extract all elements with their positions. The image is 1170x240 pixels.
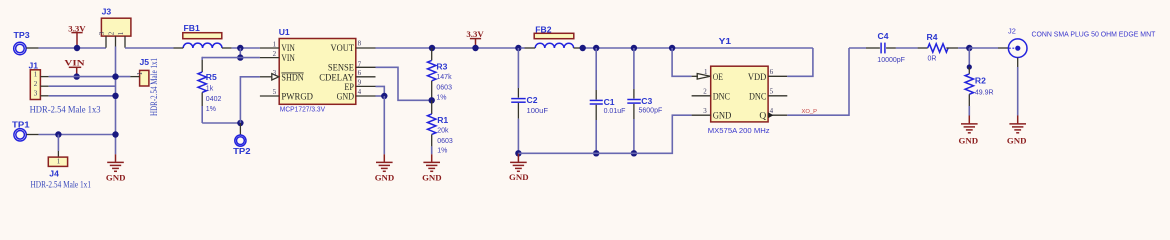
- pin 3 of J1: [40, 95, 48, 97]
- svg-text:0603: 0603: [437, 138, 453, 145]
- svg-text:7: 7: [358, 60, 362, 68]
- test point TP1: [12, 119, 30, 141]
- wire VOUT rail: [376, 47, 519, 49]
- svg-text:J3: J3: [102, 7, 112, 17]
- svg-text:2: 2: [703, 87, 707, 95]
- junction OE drop: [669, 45, 675, 51]
- svg-text:GND: GND: [337, 93, 355, 103]
- wire TP1 to GND line: [39, 134, 116, 136]
- svg-text:3: 3: [98, 31, 106, 35]
- connector J3: [98, 7, 131, 36]
- junction R2 pin: [967, 64, 972, 69]
- pin 1 of J4: [57, 151, 59, 157]
- junction C1 top: [593, 45, 599, 51]
- svg-text:9: 9: [358, 79, 362, 87]
- svg-text:OE: OE: [713, 73, 723, 83]
- pin 5 of Y1: [768, 95, 787, 97]
- svg-text:0.01uF: 0.01uF: [604, 108, 626, 115]
- svg-text:PWRGD: PWRGD: [281, 93, 313, 103]
- oscillator Y1 MX575A: [708, 36, 770, 135]
- svg-text:49.9R: 49.9R: [975, 90, 994, 97]
- svg-text:DNC: DNC: [713, 92, 730, 102]
- junction C2 bottom: [515, 150, 521, 156]
- svg-text:1: 1: [704, 68, 708, 76]
- resistor R5: [198, 57, 221, 123]
- svg-text:C1: C1: [604, 97, 615, 107]
- junction J1 pin3 wire at x115.5: [112, 93, 118, 99]
- svg-text:R3: R3: [436, 61, 447, 71]
- pin 7 of U1: [356, 66, 376, 68]
- svg-text:1: 1: [273, 41, 277, 49]
- svg-text:C2: C2: [527, 95, 538, 105]
- pin 2 of U1: [260, 57, 279, 59]
- svg-text:2: 2: [107, 31, 115, 35]
- svg-text:GND: GND: [375, 172, 395, 182]
- svg-text:VOUT: VOUT: [331, 44, 355, 54]
- wire J1 pin 1 to J5: [49, 76, 131, 78]
- pin 2 of Y1: [692, 95, 711, 97]
- svg-text:HDR-2.54 Male 1x1: HDR-2.54 Male 1x1: [31, 179, 92, 189]
- junction R3 top: [429, 45, 435, 51]
- junction at 3.3V port: [74, 45, 80, 51]
- svg-text:GND: GND: [1007, 135, 1027, 145]
- wire FB1 to U1 pin 1: [232, 47, 260, 49]
- connector J1: [29, 61, 102, 115]
- svg-text:GND: GND: [509, 172, 529, 182]
- ground symbol under C2: [509, 153, 529, 182]
- test point TP3: [14, 30, 30, 54]
- pin 4 of U1: [356, 95, 376, 97]
- svg-text:1%: 1%: [437, 148, 447, 155]
- pin 5 of U1: [260, 95, 279, 97]
- connector J2 SMA: [1008, 27, 1156, 58]
- connector J5: [136, 57, 159, 116]
- wire J2 to ground: [1017, 58, 1019, 67]
- svg-text:Y1: Y1: [719, 36, 732, 46]
- svg-text:5: 5: [770, 87, 774, 95]
- svg-text:3.3V: 3.3V: [68, 23, 86, 33]
- ground symbol under R1: [422, 154, 442, 182]
- wire J4 drop: [57, 135, 59, 152]
- junction at pin2 row: [237, 54, 243, 60]
- svg-text:1: 1: [136, 71, 144, 75]
- svg-text:GND: GND: [713, 112, 732, 122]
- pin 3 of Y1: [692, 114, 711, 116]
- svg-text:MX575A 200 MHz: MX575A 200 MHz: [708, 126, 770, 135]
- svg-text:XO_P: XO_P: [802, 109, 818, 115]
- pin 1 of U1: [260, 47, 279, 49]
- resistor R1: [428, 100, 453, 154]
- svg-text:10000pF: 10000pF: [877, 57, 905, 64]
- wire J3 pin 2 down to GND: [115, 47, 117, 155]
- svg-text:J5: J5: [140, 57, 150, 67]
- svg-text:0603: 0603: [436, 84, 452, 91]
- svg-text:2: 2: [34, 80, 38, 88]
- pin 1 of J1: [40, 76, 48, 78]
- svg-text:1k: 1k: [206, 86, 214, 93]
- wire Q output XO_P: [787, 48, 849, 115]
- svg-text:MCP1727/3.3V: MCP1727/3.3V: [280, 105, 325, 114]
- resistor R3: [428, 48, 453, 102]
- svg-text:147k: 147k: [436, 74, 452, 81]
- junction SENSE divider: [429, 97, 435, 103]
- wire SENSE to divider: [376, 67, 429, 100]
- wire OE drop: [672, 48, 692, 76]
- pin 4 of Y1 with arrow: [768, 114, 787, 116]
- resistor R4: [918, 32, 970, 63]
- regulator U1 MCP1727: [279, 27, 356, 114]
- wire R5 top to U1 pin 2: [202, 57, 260, 59]
- wire rail drop to VIN pin2 row: [239, 48, 241, 58]
- junction TP1 wire at x115.5: [112, 131, 118, 137]
- svg-text:VDD: VDD: [748, 73, 767, 83]
- junction EP GND: [381, 93, 387, 99]
- junction J1 pin1 wire at x115.5: [112, 73, 118, 79]
- svg-text:3: 3: [703, 107, 707, 115]
- svg-text:FB1: FB1: [184, 23, 200, 33]
- pin of TP3: [26, 47, 38, 49]
- wire to J2: [969, 47, 998, 49]
- svg-text:0R: 0R: [928, 56, 937, 63]
- svg-text:J4: J4: [49, 168, 59, 178]
- svg-text:TP2: TP2: [233, 146, 251, 156]
- wire J1 pin 3: [49, 95, 116, 97]
- wire EP to GND junction: [376, 86, 385, 95]
- svg-text:4: 4: [358, 88, 362, 96]
- svg-text:R2: R2: [975, 76, 986, 86]
- svg-text:6: 6: [358, 69, 362, 77]
- svg-text:4: 4: [770, 107, 774, 115]
- pin 6 of U1: [356, 76, 376, 78]
- test point TP2: [233, 135, 251, 156]
- capacitor C1: [590, 48, 626, 153]
- power port 3.3V: [68, 23, 86, 47]
- svg-text:C3: C3: [641, 96, 652, 106]
- pin of TP1: [26, 134, 38, 136]
- svg-text:CONN SMA PLUG 50 OHM EDGE MNT: CONN SMA PLUG 50 OHM EDGE MNT: [1032, 30, 1156, 39]
- connector J4: [31, 157, 92, 189]
- pin 2 of J1: [40, 85, 48, 87]
- power port 3.3V mid: [466, 29, 484, 47]
- pin 3 of J3: [105, 36, 107, 48]
- svg-text:HDR-2.54 Male 1x1: HDR-2.54 Male 1x1: [149, 58, 159, 116]
- svg-text:1: 1: [57, 158, 61, 166]
- svg-text:3.3V: 3.3V: [466, 29, 484, 39]
- pin 2 of J3: [115, 36, 117, 46]
- svg-text:20k: 20k: [437, 128, 449, 135]
- capacitor C4: [849, 31, 918, 64]
- capacitor C3: [627, 48, 662, 153]
- svg-text:1: 1: [117, 31, 125, 35]
- wire J1 pin 2: [49, 85, 116, 87]
- svg-text:1: 1: [34, 70, 38, 78]
- wire FB2 left lead: [521, 47, 525, 49]
- svg-text:C4: C4: [878, 31, 889, 41]
- pin 9 of U1: [356, 85, 376, 87]
- wire J3 pin1 to FB1: [125, 47, 174, 49]
- resistor R2: [965, 67, 993, 116]
- ferrite bead FB1: [174, 23, 232, 48]
- pin 3 of U1 with input arrow: [260, 76, 272, 78]
- svg-text:5: 5: [273, 88, 277, 96]
- svg-text:6: 6: [770, 68, 774, 76]
- junction VIN at J1 pin 1 row: [74, 73, 80, 79]
- wire pin 4 GND: [376, 95, 385, 97]
- pin of TP2: [239, 123, 241, 135]
- power port VIN: [64, 58, 85, 76]
- pin 1 of J5: [130, 76, 139, 78]
- junction after FB2: [580, 45, 586, 51]
- svg-text:1%: 1%: [436, 95, 446, 102]
- wire VDD to rail: [787, 48, 813, 76]
- pin 1 of J3: [124, 36, 126, 48]
- svg-text:8: 8: [358, 40, 362, 48]
- svg-text:U1: U1: [279, 27, 290, 37]
- svg-text:DNC: DNC: [749, 92, 766, 102]
- svg-text:GND: GND: [106, 172, 126, 182]
- svg-text:SENSE: SENSE: [328, 64, 354, 74]
- svg-text:VIN: VIN: [64, 58, 85, 68]
- svg-text:SHDN: SHDN: [281, 73, 303, 83]
- svg-text:100uF: 100uF: [527, 108, 549, 115]
- junction R2 top: [966, 45, 972, 51]
- wire TP3 to J3 pin 3: [39, 47, 106, 49]
- capacitor C2: [511, 48, 548, 153]
- wire GND junction down: [383, 96, 385, 154]
- svg-text:J2: J2: [1008, 27, 1016, 36]
- svg-text:TP3: TP3: [14, 30, 30, 40]
- junction C1 bottom: [593, 150, 599, 156]
- wire R2 drop: [968, 48, 970, 67]
- svg-text:EP: EP: [344, 83, 354, 93]
- svg-text:R5: R5: [206, 72, 217, 82]
- svg-text:HDR-2.54 Male 1x3: HDR-2.54 Male 1x3: [30, 104, 101, 114]
- ground symbol under J2: [1007, 116, 1027, 146]
- junction at TP2: [237, 120, 243, 126]
- svg-text:Q: Q: [759, 112, 766, 122]
- junction 3.3V mid: [472, 45, 478, 51]
- svg-text:3: 3: [34, 90, 38, 98]
- ferrite bead FB2: [525, 25, 581, 48]
- junction C3 top: [631, 45, 637, 51]
- svg-text:1%: 1%: [206, 106, 216, 113]
- svg-text:R1: R1: [437, 115, 448, 125]
- junction C3 bottom: [631, 150, 637, 156]
- pin 1 of Y1 with input arrow: [692, 75, 698, 77]
- svg-text:CDELAY: CDELAY: [319, 73, 354, 83]
- wire SHDN riser: [240, 77, 260, 123]
- svg-text:GND: GND: [422, 172, 442, 182]
- wire ground bus bottom: [518, 115, 691, 153]
- wire 3.3V rail after FB2: [581, 47, 813, 49]
- wire R5 bottom to TP2 junction: [202, 122, 240, 124]
- pin 6 of Y1: [768, 75, 787, 77]
- junction TP1 wire at J4 drop: [55, 131, 61, 137]
- ground symbol under J1 column: [106, 154, 126, 182]
- svg-text:GND: GND: [959, 135, 979, 145]
- svg-text:3: 3: [273, 69, 277, 77]
- svg-text:VIN: VIN: [281, 44, 295, 54]
- pin 8 of U1: [356, 47, 376, 49]
- svg-text:R4: R4: [927, 32, 938, 42]
- junction C2 top: [515, 45, 521, 51]
- svg-text:5600pF: 5600pF: [639, 108, 663, 115]
- junction VIN rail at x240.3: [237, 45, 243, 51]
- svg-text:2: 2: [273, 50, 277, 58]
- svg-text:0402: 0402: [206, 96, 222, 103]
- svg-text:VIN: VIN: [281, 54, 295, 64]
- ground symbol under U1: [375, 154, 395, 182]
- ground symbol under R2: [959, 116, 979, 146]
